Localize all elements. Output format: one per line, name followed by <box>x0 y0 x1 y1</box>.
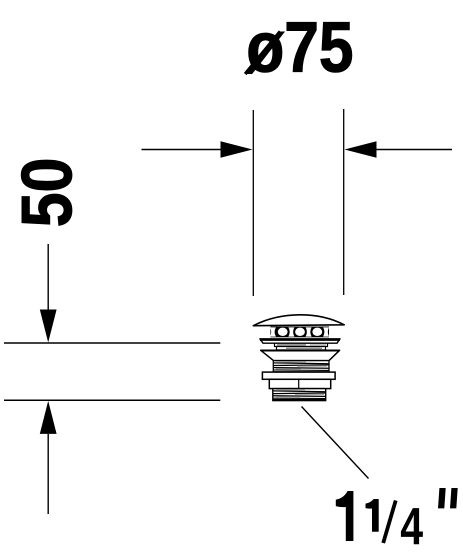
size label fraction numerator 1 <box>366 499 379 532</box>
locknut <box>269 379 330 388</box>
cap underside band with beads <box>270 327 329 338</box>
inch double prime mark <box>438 488 458 508</box>
dimension line left with arrowhead <box>142 141 253 158</box>
valve cap dome <box>253 315 344 326</box>
50 dimension arrow up <box>40 401 57 514</box>
chrome ring plate <box>260 339 340 343</box>
gasket disc upper <box>275 343 328 346</box>
upper thread section <box>273 361 329 372</box>
dimension label 50 (rotated) <box>21 160 72 225</box>
surface line top <box>4 342 220 344</box>
50 dimension arrow down <box>40 244 57 343</box>
extension line right <box>343 109 345 295</box>
sealing washer trapezoid <box>261 350 340 360</box>
size label fraction slash <box>383 501 396 544</box>
lower thread section <box>273 389 326 401</box>
leader line <box>302 407 369 479</box>
dimension line right with arrowhead <box>345 141 453 158</box>
dimension label ø75 <box>245 22 352 74</box>
mounting flange bar <box>262 372 335 379</box>
size label fraction denominator 4 <box>401 508 423 544</box>
gasket disc lower <box>277 347 326 350</box>
extension line left <box>252 110 254 296</box>
size label big digit 1 <box>336 491 354 541</box>
surface line bottom <box>4 399 220 401</box>
